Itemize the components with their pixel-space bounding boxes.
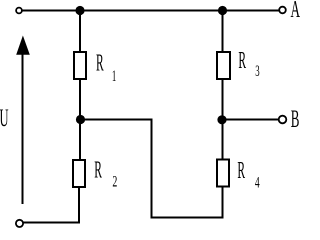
wire right branch lower <box>222 120 224 161</box>
wire middle to terminal B <box>223 119 279 121</box>
resistor R4 <box>217 160 229 187</box>
terminal top-left input <box>16 8 22 14</box>
svg-text:R: R <box>96 50 104 77</box>
terminal bottom-left input <box>16 220 23 227</box>
terminal A circle <box>279 7 286 14</box>
wire left branch lower <box>79 120 81 161</box>
resistor R2 <box>73 160 85 187</box>
node junction middle-left <box>76 115 85 124</box>
svg-text:R: R <box>237 158 245 185</box>
svg-text:3: 3 <box>255 61 259 80</box>
node junction top-left <box>75 6 84 15</box>
wire bottom-left <box>23 222 80 224</box>
wire R1 to middle node <box>79 79 81 120</box>
svg-text:A: A <box>291 0 301 23</box>
wire middle horizontal from node <box>80 119 153 121</box>
wire left branch upper <box>79 11 81 53</box>
svg-text:2: 2 <box>112 172 117 190</box>
resistor R1 <box>74 52 86 79</box>
wire R3 to middle node <box>222 79 224 120</box>
wire middle vertical down <box>151 120 153 219</box>
svg-text:4: 4 <box>255 173 260 191</box>
wire up to R4 bottom <box>222 187 224 219</box>
wire bottom-right horizontal <box>151 217 224 219</box>
svg-text:R: R <box>238 48 246 75</box>
svg-text:R: R <box>94 157 102 184</box>
svg-text:B: B <box>291 106 300 134</box>
wire R2 to bottom-left <box>78 187 80 223</box>
svg-text:1: 1 <box>112 66 116 85</box>
svg-text:U: U <box>0 104 9 132</box>
voltage arrow U head <box>16 36 30 55</box>
node junction top-right <box>218 6 227 15</box>
voltage arrow U shaft <box>22 48 24 204</box>
wire top bus <box>22 10 279 12</box>
terminal B circle <box>279 116 287 124</box>
resistor R3 <box>217 52 230 79</box>
wire right branch upper <box>222 11 224 54</box>
node junction middle-right <box>217 115 226 124</box>
